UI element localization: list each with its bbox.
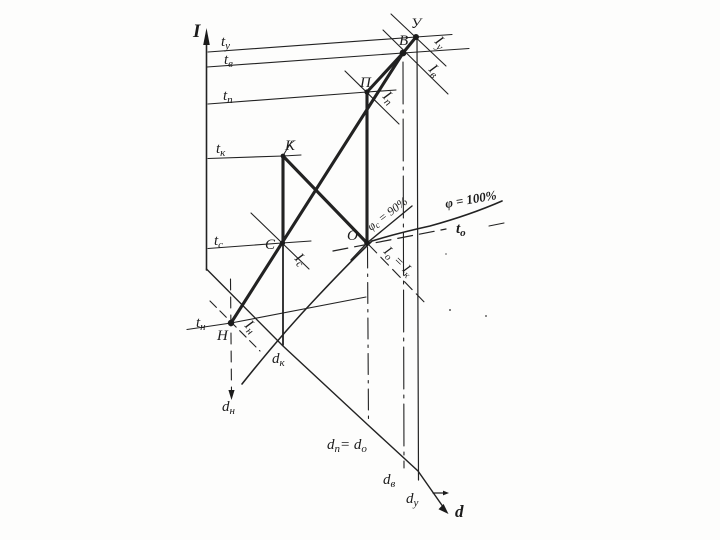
- svg-text:tв: tв: [224, 52, 233, 70]
- svg-text:tу: tу: [221, 34, 230, 52]
- isenthalp I_с (through С): [251, 213, 309, 269]
- small arrow above d arrowhead: [433, 492, 446, 494]
- process line К-О (adiabatic humidification, I=const): [283, 156, 367, 243]
- paper speck 3: [445, 253, 447, 255]
- isenthalp I_в (through В): [383, 30, 448, 94]
- process line Н-С-В (mixing line): [231, 53, 403, 323]
- point П: [364, 89, 369, 94]
- tick at К: [284, 141, 292, 154]
- paper speck 2: [485, 315, 487, 317]
- svg-text:П: П: [359, 75, 372, 91]
- isotherm t_к: [208, 155, 301, 159]
- isotherm t_п: [208, 90, 396, 104]
- point В: [400, 50, 407, 57]
- svg-text:dв: dв: [383, 472, 396, 490]
- isotherm t_в: [207, 49, 469, 68]
- projection line d_п=d_о (dash-dot vertical below О): [368, 247, 369, 424]
- svg-text:Н: Н: [216, 328, 229, 344]
- projection line d_к (vertical below С to d axis): [282, 243, 284, 345]
- process line О-П (reheat, d=const): [365, 92, 368, 243]
- axis d (oblique moisture axis): [207, 269, 447, 511]
- svg-text:К: К: [284, 138, 296, 154]
- isotherm t_у: [208, 35, 452, 53]
- svg-text:Iо = Iк: Iо = Iк: [378, 243, 416, 281]
- point О: [364, 240, 370, 246]
- svg-text:dу: dу: [406, 491, 419, 509]
- svg-text:φ = 100%: φ = 100%: [444, 187, 498, 211]
- svg-text:dн: dн: [222, 399, 236, 417]
- isotherm t_с: [208, 241, 311, 249]
- projection line d_н (dashed vertical below Н with arrow): [231, 279, 232, 392]
- axis I arrowhead: [203, 28, 210, 45]
- isenthalp I_н (dashed through Н): [210, 301, 260, 351]
- isotherm t_н: [187, 297, 366, 330]
- svg-text:tо: tо: [456, 221, 466, 239]
- svg-text:dк: dк: [272, 351, 286, 369]
- svg-text:dп= dо: dп= dо: [327, 437, 367, 455]
- svg-text:tс: tс: [214, 233, 223, 251]
- isenthalp I_п (through П): [345, 71, 399, 124]
- svg-text:d: d: [455, 502, 464, 521]
- projection line d_в (dash-dot vertical below В): [403, 62, 404, 468]
- svg-text:tн: tн: [196, 315, 206, 333]
- svg-text:Iв: Iв: [423, 61, 443, 82]
- process line П-В (supply to room): [367, 53, 403, 92]
- saturation curve φ=100%: [242, 201, 502, 384]
- svg-text:tп: tп: [223, 88, 233, 106]
- curve φс=90% (through О): [351, 206, 412, 260]
- svg-text:С: С: [265, 237, 276, 253]
- projection line d_у (solid vertical below У): [417, 37, 419, 480]
- axis I (vertical enthalpy axis): [206, 36, 208, 270]
- process line В-У (exhaust rise): [403, 37, 416, 53]
- process line С-К (heating, d=const): [281, 156, 284, 243]
- point К: [281, 154, 286, 159]
- svg-text:В: В: [399, 33, 408, 49]
- svg-text:О: О: [347, 228, 358, 244]
- svg-text:I: I: [192, 21, 201, 42]
- svg-text:У: У: [411, 16, 423, 32]
- point С: [280, 240, 285, 245]
- isenthalp I_у (through У): [391, 14, 446, 66]
- isotherm t_о (dashed through О): [333, 229, 446, 251]
- isenthalp I_о=I_к (dashed beyond О): [369, 245, 428, 306]
- axis d arrowhead: [439, 504, 449, 514]
- svg-text:tк: tк: [216, 141, 226, 159]
- point У: [413, 34, 419, 40]
- paper speck 1: [449, 309, 451, 311]
- point Н: [228, 320, 234, 326]
